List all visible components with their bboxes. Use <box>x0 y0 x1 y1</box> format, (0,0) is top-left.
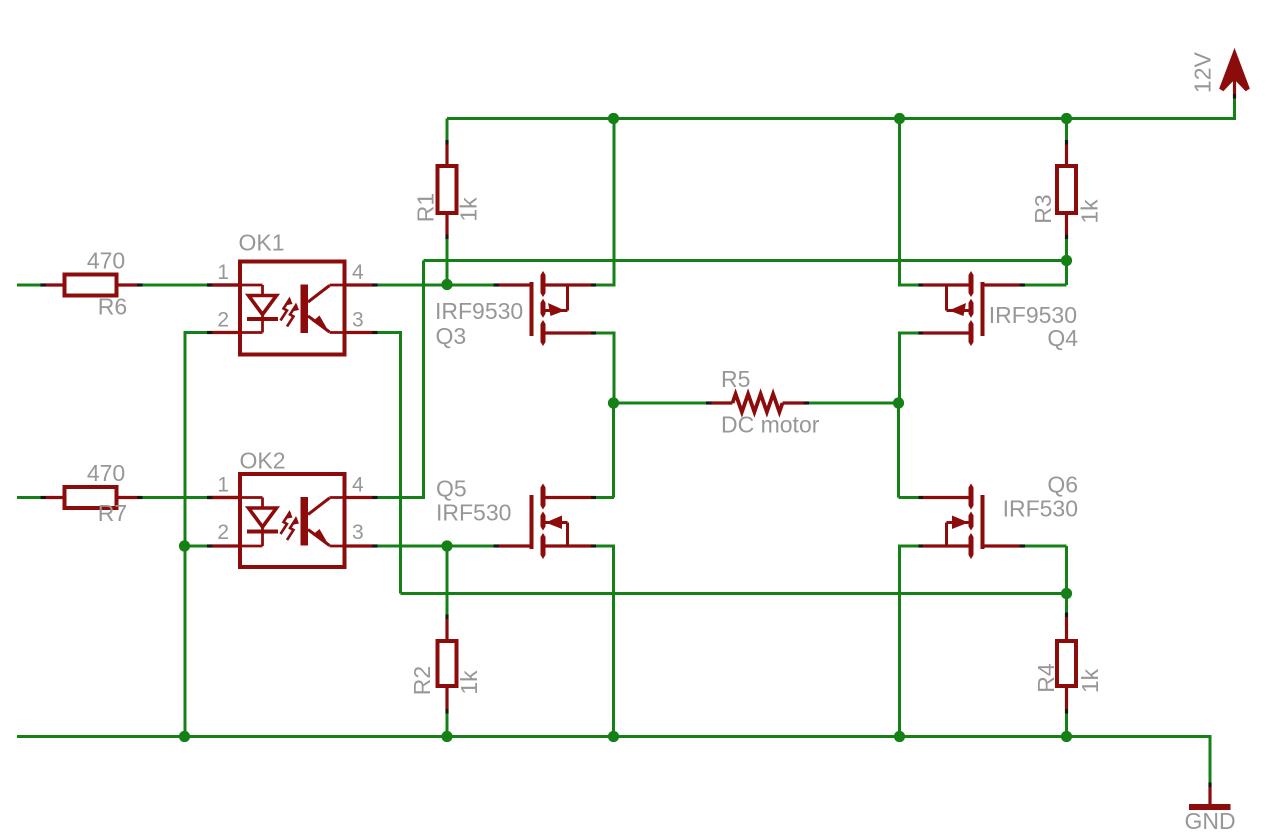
OK2 light arrows <box>281 512 291 534</box>
wire motor node to Q6 drain <box>897 403 900 498</box>
OK1 pin 1 stub <box>213 283 239 286</box>
wire OK1 pin3 to Q6 gate horizontal <box>401 592 1067 595</box>
transistor Q4 gate bar <box>981 282 985 336</box>
junction Q4 gate <box>1061 255 1072 266</box>
svg-text:1k: 1k <box>456 670 482 695</box>
optocoupler OK1 box <box>240 262 345 355</box>
transistor Q4 gate lead <box>981 283 1020 286</box>
wire OK2 pin2 to junction <box>185 545 207 548</box>
wire OK1 pin3 right <box>378 331 401 334</box>
wire motor left <box>614 402 707 405</box>
svg-text:R5: R5 <box>721 366 750 392</box>
OK1 phototransistor <box>301 285 309 334</box>
OK2 pin 1 stub <box>213 496 239 499</box>
resistor R7 470 <box>17 496 41 499</box>
svg-text:OK1: OK1 <box>239 230 285 256</box>
svg-text:IRF530: IRF530 <box>1003 496 1078 522</box>
transistor Q3 gate lead <box>499 283 534 286</box>
svg-text:4: 4 <box>352 261 364 284</box>
OK2 LED <box>238 496 263 499</box>
OK2 phototransistor <box>301 497 309 546</box>
svg-text:4: 4 <box>352 474 364 497</box>
svg-text:Q5: Q5 <box>436 476 467 502</box>
transistor Q4 source lead <box>923 331 972 334</box>
transistor Q4 bulk <box>945 287 948 311</box>
wire Q3 drain down <box>596 332 614 335</box>
OK1 LED <box>238 284 263 287</box>
junction GND 2 <box>441 731 452 742</box>
OK2 pin 3 stub <box>347 544 373 547</box>
OK2 pin 4 stub <box>347 496 373 499</box>
wire OK1 pin3 vertical <box>399 331 402 594</box>
wire motor node to Q5 drain <box>612 403 615 498</box>
wire OK1 pin4 to Q3 gate <box>378 284 494 287</box>
resistor R3 1k <box>1065 119 1068 141</box>
junction motor left <box>608 397 619 408</box>
transistor Q5 channel <box>541 484 546 510</box>
OK1 pin 4 stub <box>347 283 373 286</box>
transistor Q3 channel <box>541 271 546 297</box>
svg-text:1k: 1k <box>456 197 482 222</box>
resistor R6 470 <box>17 284 41 287</box>
resistor R1 1k <box>446 119 449 141</box>
svg-text:R4: R4 <box>1033 663 1059 693</box>
resistor R4 1k <box>1065 594 1068 613</box>
junction rail-R3 <box>1061 113 1072 124</box>
svg-text:1k: 1k <box>1077 199 1103 224</box>
transistor Q6 source lead <box>923 544 972 547</box>
transistor Q6 gate lead <box>981 544 1020 547</box>
wire left vertical GND branch <box>184 331 187 737</box>
svg-text:Q3: Q3 <box>436 323 467 349</box>
wire Q6 source to GND rail <box>900 545 919 548</box>
svg-text:GND: GND <box>1184 808 1235 834</box>
OK2 pin 2 stub <box>213 544 239 547</box>
svg-text:R7: R7 <box>98 500 127 526</box>
pin tip GND <box>1208 783 1211 788</box>
wire OK2 pin4 to Q4 gate horizontal <box>424 259 1067 262</box>
svg-text:OK2: OK2 <box>240 448 286 474</box>
junction GND 4 <box>894 731 905 742</box>
transistor Q5 source lead <box>542 544 591 547</box>
ground GND symbol <box>1208 787 1211 805</box>
wire 12V top rail <box>447 117 1235 120</box>
junction GND 3 <box>608 731 619 742</box>
wire OK2 pin4 vertical <box>422 261 425 500</box>
transistor Q4 drain lead <box>923 283 972 286</box>
svg-text:Q4: Q4 <box>1047 325 1078 351</box>
transistor Q6 channel <box>969 484 974 510</box>
transistor Q3 drain lead <box>542 283 591 286</box>
svg-text:R6: R6 <box>98 294 127 320</box>
junction Q6 gate <box>1061 588 1072 599</box>
transistor Q6 gate bar <box>981 495 985 549</box>
svg-text:R2: R2 <box>409 666 435 695</box>
transistor Q5 drain lead <box>542 496 591 499</box>
wire Q4 drain down <box>900 332 919 335</box>
transistor Q3 bulk <box>566 287 569 311</box>
svg-text:1: 1 <box>217 474 229 497</box>
junction OK2 pin2 <box>179 540 190 551</box>
svg-text:Q6: Q6 <box>1047 472 1078 498</box>
svg-text:IRF9530: IRF9530 <box>435 298 523 324</box>
supply +12V arrow <box>1222 55 1248 90</box>
svg-text:1k: 1k <box>1077 668 1103 693</box>
resistor R5 DC motor <box>712 401 733 404</box>
wire Q5 source to GND rail <box>596 545 614 548</box>
svg-text:470: 470 <box>87 248 125 274</box>
svg-text:DC motor: DC motor <box>721 412 820 438</box>
svg-text:3: 3 <box>352 309 364 332</box>
pin tip 12V <box>1233 94 1236 99</box>
wire Q4 source to rail <box>900 284 919 287</box>
junction rail-Q3 <box>608 113 619 124</box>
transistor Q6 drain lead <box>923 496 972 499</box>
OK1 pin 3 stub <box>347 331 373 334</box>
transistor Q3 gate bar <box>530 282 534 336</box>
wire Q3 source to rail <box>596 284 614 287</box>
transistor Q5 gate bar <box>530 495 534 549</box>
wire OK2 pin3 to Q5 gate <box>378 545 494 548</box>
junction GND 1 <box>179 731 190 742</box>
wire GND bottom rail <box>17 735 1210 738</box>
wire Q6 gate to R4 node <box>1025 545 1067 548</box>
svg-text:2: 2 <box>217 309 229 332</box>
OK1 light arrows <box>281 299 291 321</box>
junction Q5 gate <box>441 540 452 551</box>
wire motor right <box>809 402 899 405</box>
wire Q4 gate to R3 node <box>1025 284 1067 287</box>
junction Q3 gate <box>441 279 452 290</box>
svg-text:2: 2 <box>217 521 229 544</box>
transistor Q3 source lead <box>542 331 591 334</box>
svg-text:R1: R1 <box>413 193 439 222</box>
junction GND 5 <box>1061 731 1072 742</box>
wire OK2 pin4 right <box>378 496 424 499</box>
svg-text:3: 3 <box>352 521 364 544</box>
wire to GND <box>1209 735 1212 783</box>
svg-text:1: 1 <box>217 261 229 284</box>
junction rail-Q4 <box>894 113 905 124</box>
svg-text:IRF530: IRF530 <box>436 500 511 526</box>
svg-text:470: 470 <box>87 460 125 486</box>
resistor R2 1k <box>446 546 449 615</box>
wire 12V stem <box>1233 99 1236 121</box>
junction motor right <box>893 397 904 408</box>
transistor Q4 channel <box>969 271 974 297</box>
wire OK1 pin2 left <box>185 331 207 334</box>
OK1 pin 2 stub <box>213 331 239 334</box>
transistor Q5 gate lead <box>499 544 534 547</box>
optocoupler OK2 box <box>240 474 345 567</box>
transistor Q6 bulk <box>945 523 948 545</box>
svg-text:12V: 12V <box>1190 51 1216 93</box>
svg-text:R3: R3 <box>1030 194 1056 223</box>
transistor Q5 bulk <box>566 523 569 545</box>
